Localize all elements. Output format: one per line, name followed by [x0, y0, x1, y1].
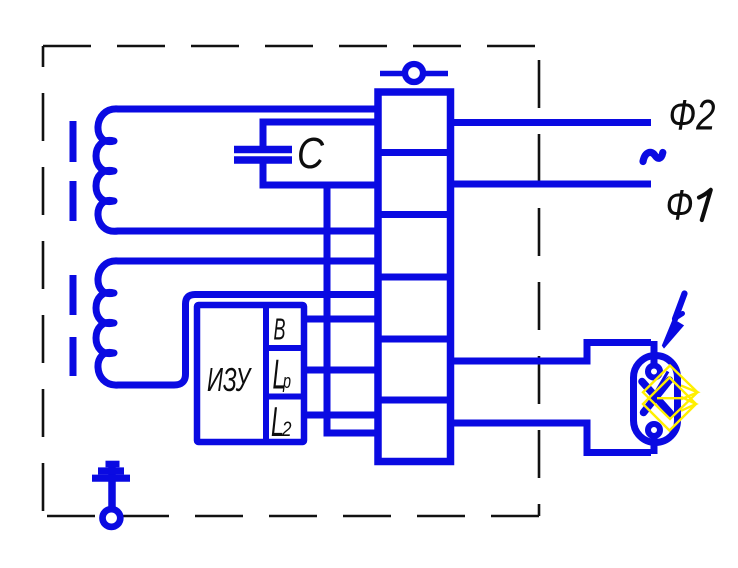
lamp electrode top — [648, 366, 660, 378]
IZU divider Lp/L2 — [266, 394, 304, 400]
svg-text:ИЗУ: ИЗУ — [207, 361, 252, 398]
magnetic core dashed line — [70, 121, 77, 376]
enclosure dashed border top — [43, 45, 539, 48]
lamp wire top — [450, 343, 651, 362]
lamp electrode bottom — [648, 424, 660, 436]
enclosure dashed border left — [42, 46, 45, 516]
lamp wire bottom — [450, 423, 651, 453]
terminal divider 3 — [378, 274, 451, 281]
ignitor unit IZU box — [197, 305, 304, 442]
phase wire F1 — [450, 181, 651, 188]
terminal divider 1 — [378, 149, 451, 156]
light rays yellow — [643, 366, 698, 431]
capacitor C plates — [234, 146, 292, 154]
terminal divider 5 — [378, 397, 451, 404]
capacitor branch loop — [263, 122, 380, 185]
wire from Lp box to terminal block — [304, 367, 378, 374]
svg-text:В: В — [274, 312, 286, 347]
svg-text:Ф2: Ф2 — [669, 92, 716, 140]
lamp bulb body — [634, 356, 678, 443]
IZU divider B/Lp — [266, 345, 304, 351]
terminal divider 4 — [378, 336, 451, 343]
lamp top stem — [651, 341, 658, 368]
phase wire F2 — [450, 119, 651, 126]
svg-text:2: 2 — [281, 418, 292, 441]
wire from B box to terminal block — [304, 316, 378, 323]
top terminal line — [380, 71, 448, 77]
winding L1 (top) — [96, 109, 380, 231]
top terminal circle — [405, 64, 423, 82]
IZU internal partition — [263, 305, 269, 442]
AC tilde symbol — [643, 152, 663, 161]
ground symbol — [108, 466, 116, 508]
lamp arc strokes — [642, 382, 671, 414]
lamp bottom stem — [651, 433, 658, 454]
wire from L2 box to terminal block — [304, 412, 378, 419]
vertical bus wire — [327, 182, 378, 434]
svg-text:Ф: Ф — [666, 182, 694, 230]
ignition lightning bolt — [675, 294, 685, 320]
svg-text:p: p — [282, 371, 291, 393]
terminal divider 2 — [378, 211, 451, 218]
enclosure dashed border bottom — [43, 515, 539, 518]
svg-text:C: C — [297, 129, 325, 178]
enclosure dashed border right — [538, 46, 541, 516]
ground circle — [103, 509, 121, 527]
winding L2 (bottom) — [96, 261, 380, 385]
terminal block — [378, 92, 451, 462]
